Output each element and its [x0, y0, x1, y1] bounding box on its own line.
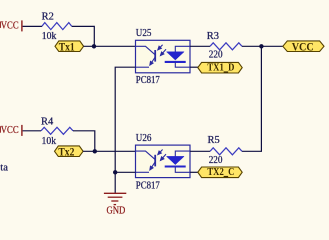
- wire VCC1 to R2: [23, 25, 42, 27]
- svg-text:Tx1: Tx1: [59, 41, 75, 53]
- optocoupler U25 body: [136, 40, 191, 73]
- svg-text:PC817: PC817: [136, 75, 160, 86]
- node junction GND rail: [113, 170, 117, 174]
- resistor R4: [41, 127, 73, 134]
- svg-text:U25: U25: [136, 28, 152, 39]
- wire Tx2 to junction to U26 pin1: [83, 150, 135, 152]
- svg-text:TX1_D: TX1_D: [207, 63, 234, 74]
- svg-text:R4: R4: [41, 116, 53, 127]
- wire R3 to VCC port: [242, 45, 283, 47]
- svg-text:ta: ta: [0, 163, 8, 174]
- svg-text:R5: R5: [208, 135, 220, 146]
- svg-text:VCC: VCC: [1, 21, 19, 32]
- node junction Tx2/R4: [93, 149, 97, 153]
- svg-text:220: 220: [209, 155, 223, 166]
- light arrows U26: [158, 150, 166, 161]
- power port VCC bottom-left: [0, 125, 23, 136]
- LED of U25: [165, 46, 190, 67]
- svg-text:10k: 10k: [42, 136, 57, 147]
- port Tx1: [55, 41, 84, 53]
- resistor R2: [42, 23, 72, 30]
- wire GND stem: [114, 172, 116, 193]
- wire VCC3 to R4: [23, 130, 41, 132]
- wire U26 emitter to GND junction: [115, 171, 135, 173]
- wire vertical bus: [242, 46, 261, 151]
- ground: [104, 193, 126, 216]
- wire R2 to junction (over and down): [72, 26, 95, 46]
- optocoupler U26 body: [136, 145, 191, 178]
- wire U26 anode to R5: [190, 150, 210, 152]
- wire R4 to junction (over and down): [73, 131, 95, 152]
- resistor R5: [210, 148, 242, 155]
- svg-text:220: 220: [209, 50, 223, 61]
- svg-text:VCC: VCC: [1, 125, 19, 136]
- LED of U26: [165, 151, 190, 172]
- wire U25 emitter to GND rail: [115, 67, 135, 172]
- resistor R3: [210, 43, 242, 50]
- svg-text:VCC: VCC: [292, 41, 314, 53]
- wire U25 anode to R3: [190, 45, 210, 47]
- port Tx2: [55, 146, 84, 158]
- svg-text:GND: GND: [107, 206, 126, 217]
- svg-text:10k: 10k: [42, 31, 57, 42]
- power port VCC top-left: [0, 20, 23, 31]
- node junction Tx1/R2: [92, 44, 96, 48]
- svg-text:R3: R3: [207, 31, 219, 42]
- phototransistor of U25: [136, 46, 156, 67]
- svg-text:PC817: PC817: [136, 180, 160, 191]
- svg-text:R2: R2: [42, 12, 54, 23]
- wire Tx1 to junction to U25 pin1: [84, 45, 136, 47]
- svg-text:TX2_C: TX2_C: [207, 167, 234, 178]
- port TX2_C: [198, 167, 242, 178]
- phototransistor of U26: [136, 151, 156, 172]
- node junction R3/VCC/bus: [259, 44, 263, 48]
- port TX1_D: [198, 62, 242, 73]
- wire U25 cathode to TX1_D: [190, 66, 198, 68]
- svg-text:U26: U26: [136, 133, 152, 144]
- wire U26 cathode to TX2_C: [190, 171, 198, 173]
- light arrows U25: [158, 45, 166, 56]
- svg-text:Tx2: Tx2: [58, 146, 74, 158]
- port VCC right: [283, 41, 324, 53]
